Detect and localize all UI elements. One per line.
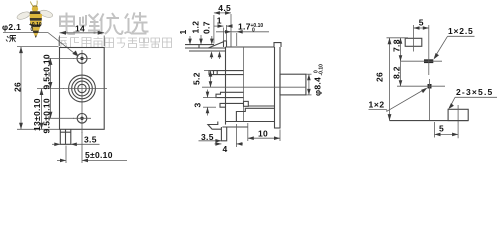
svg-text:3.5: 3.5 [84, 135, 97, 145]
internal seam [243, 47, 245, 122]
slot1 1x2.5 [424, 59, 433, 63]
dim 1 (top tab) [223, 28, 225, 41]
svg-text:10: 10 [258, 128, 268, 138]
axis line [202, 86, 306, 88]
label shen: depth [6, 36, 16, 43]
svg-text:3: 3 [193, 102, 203, 107]
svg-text:7.8: 7.8 [392, 39, 402, 52]
svg-text:4: 4 [223, 144, 228, 154]
dim 1.7 +0.10/0 [216, 31, 269, 33]
recess upper line [248, 105, 274, 107]
svg-text:2-3×5.5: 2-3×5.5 [456, 87, 493, 97]
body outline [226, 43, 282, 128]
dim 7.8 [400, 38, 402, 61]
top ext line [387, 37, 409, 39]
svg-text:1×2: 1×2 [369, 100, 385, 110]
top hole [77, 53, 87, 63]
svg-text:8.2: 8.2 [392, 66, 402, 79]
barrel [280, 74, 306, 95]
dim 4.5 [213, 15, 215, 44]
svg-text:26: 26 [375, 72, 385, 82]
bottom lug with hook [208, 122, 222, 130]
dim 10 [247, 123, 249, 141]
top-left up tab [224, 41, 227, 47]
dim 3.5 (left view tab) [52, 143, 60, 145]
small lug a [216, 92, 244, 97]
watermark big text 电峰优选 [60, 12, 149, 35]
body left edge [225, 47, 227, 125]
bottom plate [222, 126, 247, 128]
svg-text:-0.10: -0.10 [319, 64, 325, 76]
svg-text:4.5: 4.5 [218, 3, 231, 13]
top rect hole [405, 38, 422, 46]
dim 26 [20, 47, 22, 130]
svg-text:1.7: 1.7 [238, 22, 251, 32]
mid lug [209, 71, 244, 75]
dim 5 top [414, 27, 429, 29]
svg-text:5: 5 [439, 124, 444, 134]
峰 [80, 15, 86, 26]
svg-text:0: 0 [31, 27, 34, 33]
svg-text:0.7: 0.7 [201, 21, 211, 34]
svg-text:1.2: 1.2 [191, 21, 201, 34]
centerline vertical [81, 50, 83, 133]
bottom tab [60, 129, 71, 144]
bottom pin [221, 127, 226, 141]
svg-text:9.5±0.10: 9.5±0.10 [42, 54, 52, 89]
svg-text:9.5±0.10: 9.5±0.10 [42, 98, 52, 133]
bottom line [390, 120, 469, 122]
svg-text:5: 5 [419, 18, 424, 28]
bottom hole [77, 114, 87, 124]
svg-text:26: 26 [13, 82, 23, 92]
up arrows under lug [211, 53, 213, 59]
svg-text:φ8.4: φ8.4 [313, 77, 323, 96]
center pin box [244, 101, 249, 106]
dim 5±0.10 bottom [65, 146, 67, 164]
svg-text:1×2.5: 1×2.5 [448, 26, 474, 36]
优 [100, 13, 123, 35]
dim phi8.4 [306, 73, 312, 75]
left view body rectangle [60, 48, 105, 130]
svg-text:1: 1 [178, 29, 188, 34]
dim 9.5±0.10 upper [50, 58, 52, 88]
bottom-right rect [448, 109, 468, 120]
dim 26 right view [389, 38, 391, 121]
ext lines left side [17, 46, 58, 48]
dim 4 middle bottom [235, 124, 237, 147]
svg-text:φ2.1: φ2.1 [2, 22, 21, 32]
watermark small text row [59, 37, 172, 48]
选 [125, 12, 149, 34]
top lug [185, 42, 226, 51]
body bottom recess [226, 121, 275, 123]
电 [60, 13, 75, 35]
svg-text:1: 1 [217, 16, 222, 26]
small lug b [220, 103, 244, 107]
svg-text:14: 14 [75, 24, 85, 34]
big concentric circles [69, 75, 96, 102]
dim 14 top [59, 36, 61, 47]
slot2 1x2 [428, 84, 432, 89]
dim 5 bottom [434, 122, 436, 138]
svg-text:0: 0 [252, 28, 255, 34]
dim 8.2 [400, 61, 402, 86]
svg-text:13±0.10: 13±0.10 [32, 98, 42, 131]
bee logo [16, 1, 53, 40]
dim 13±0.10 [41, 89, 43, 130]
svg-text:5.2: 5.2 [192, 72, 202, 85]
svg-text:5±0.10: 5±0.10 [85, 150, 113, 160]
dim 9.5±0.10 lower [50, 89, 52, 119]
leader line for phi2.1 [3, 33, 77, 56]
